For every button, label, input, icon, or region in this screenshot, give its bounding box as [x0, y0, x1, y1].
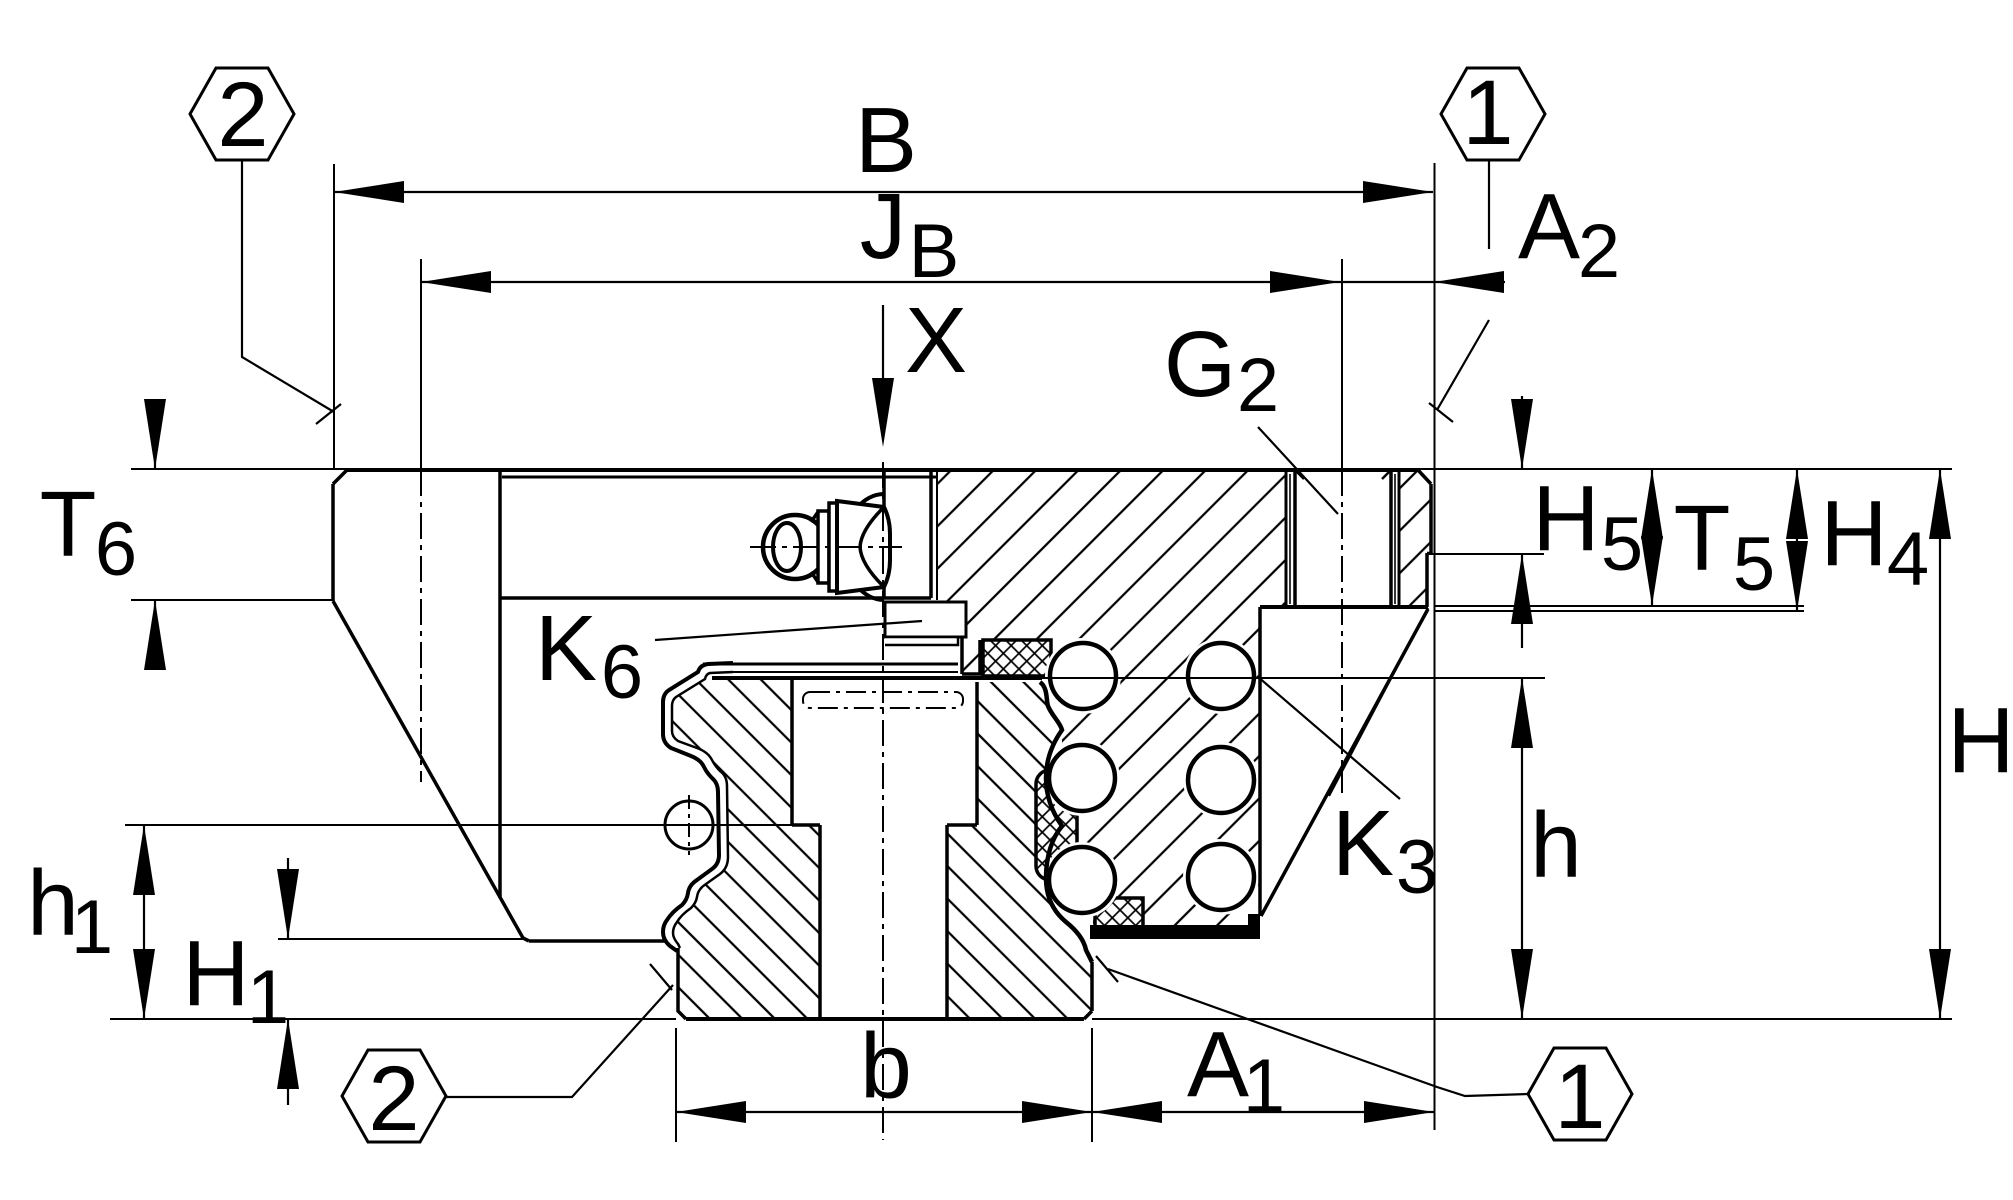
rail left flank inner contour (wavy): [672, 672, 733, 948]
G2 hole bottom: [1286, 605, 1399, 609]
end plate wall at nipple: [882, 472, 886, 598]
svg-text:b: b: [860, 1014, 912, 1118]
grease nipple ball cap: [763, 515, 827, 579]
svg-text:1: 1: [1243, 1044, 1285, 1129]
ball 1: [1050, 643, 1116, 709]
svg-text:1: 1: [71, 885, 113, 970]
ball clearance ring 4: [1183, 638, 1259, 714]
H4 reference line: [1434, 610, 1804, 612]
svg-text:B: B: [909, 209, 960, 294]
hexagon marker 2 top: [190, 64, 294, 166]
centerline X vertical: [882, 462, 884, 1140]
rail side hole circle: [665, 801, 713, 849]
label A2: [1518, 174, 1620, 294]
H1 top reference line: [278, 938, 523, 940]
leader hexagon 1 bottom: [1096, 956, 1528, 1096]
svg-text:1: 1: [1554, 1046, 1605, 1148]
lube plate K6 block: [885, 602, 966, 637]
centerline grease nipple: [750, 546, 902, 548]
centerline bolt hole left: [420, 470, 422, 782]
leader hexagon 2 top: [242, 160, 341, 424]
carriage inner wall left: [498, 472, 502, 898]
lube plate lower: [885, 637, 958, 645]
carriage bottom edge left: [523, 938, 666, 941]
carriage body section left (hatched): [885, 470, 1286, 928]
svg-text:A: A: [1518, 174, 1580, 278]
svg-text:5: 5: [1601, 502, 1643, 587]
label B: [855, 88, 917, 192]
dimension H: [1929, 469, 1951, 1019]
carriage body wall lines: [931, 472, 937, 600]
rail bottom edge: [678, 948, 1092, 1019]
dimension JB and A2 line: [421, 271, 1505, 293]
dimension H5: [1511, 396, 1533, 648]
svg-text:A: A: [1187, 1012, 1249, 1116]
dimension A1: [1092, 1101, 1434, 1123]
svg-text:K: K: [1332, 791, 1394, 895]
lower seal patch (cross-hatched): [1095, 898, 1143, 928]
rail right flank raceway outline: [1040, 682, 1092, 962]
ball 6: [1188, 844, 1254, 910]
carriage right bevel: [1261, 609, 1428, 916]
dimension h1: [133, 825, 155, 1019]
svg-text:T: T: [1674, 486, 1731, 590]
ball clearance ring 1: [1045, 638, 1121, 714]
label T6: [40, 472, 138, 592]
ball clearance ring 6: [1183, 839, 1259, 915]
rail top surface: [703, 664, 1042, 678]
carriage top surface: [347, 468, 1418, 472]
svg-text:1: 1: [1462, 62, 1513, 164]
carriage right edge: [1427, 484, 1431, 607]
svg-text:2: 2: [1578, 209, 1620, 294]
label H4: [1820, 481, 1929, 602]
X section arrow: [872, 305, 894, 447]
svg-text:2: 2: [1237, 343, 1279, 428]
dimension B line: [334, 181, 1433, 203]
dimension T5: [1641, 469, 1663, 606]
B extension line left: [333, 164, 335, 469]
leader G2: [1258, 427, 1338, 514]
label T5: [1674, 486, 1776, 607]
svg-text:X: X: [905, 288, 967, 392]
leader hexagon 1 top: [1429, 160, 1489, 422]
carriage top-right chamfer: [1418, 470, 1431, 484]
carriage left bevel: [333, 601, 523, 938]
G2 threaded hole right wall: [1382, 470, 1399, 607]
rail section right of bolt hole (hatched): [947, 682, 1092, 1019]
G2 extension line: [1341, 259, 1343, 470]
svg-text:5: 5: [1733, 522, 1775, 607]
upper seal insert (cross-hatched): [983, 640, 1051, 676]
ball center reference line (h top): [995, 677, 1545, 679]
ball 5: [1188, 747, 1254, 813]
dimension T6: [144, 399, 166, 670]
ball 4: [1188, 643, 1254, 709]
svg-text:H: H: [1947, 688, 2013, 792]
svg-text:H: H: [1820, 481, 1887, 585]
svg-text:2: 2: [368, 1048, 419, 1150]
label H5: [1532, 466, 1643, 587]
label X: [905, 288, 967, 392]
svg-text:1: 1: [247, 955, 289, 1040]
hexagon marker 1 top: [1441, 62, 1545, 164]
baseline reference line: [110, 1018, 1952, 1020]
carriage inner wall right: [1258, 607, 1262, 916]
hexagon marker 1 bottom: [1528, 1046, 1632, 1148]
leader K3 a: [1257, 676, 1400, 799]
dimension H1: [277, 858, 299, 1105]
ball 2: [1049, 745, 1115, 811]
grease nipple neck: [811, 503, 837, 591]
carriage end plate ceiling: [502, 476, 936, 479]
svg-text:2: 2: [217, 64, 268, 166]
rail left flank outer contour (wavy): [663, 663, 733, 951]
svg-text:H: H: [1532, 466, 1599, 570]
grease nipple boss socket: [844, 494, 884, 600]
T6 bottom reference line: [131, 599, 333, 601]
carriage left edge: [331, 484, 335, 601]
ball clearance ring 5: [1183, 742, 1259, 818]
bottom seal strip (solid black): [1090, 914, 1260, 939]
rail bolt hole walls: [820, 825, 947, 1019]
rail bolt counterbore walls: [792, 680, 977, 825]
svg-text:H: H: [182, 921, 249, 1025]
centerline rail side hole: [688, 795, 690, 855]
svg-text:J: J: [860, 174, 907, 278]
b extension line right: [1091, 1028, 1093, 1142]
ball clearance ring 3: [1044, 842, 1120, 918]
extension line 1 right: [1434, 163, 1436, 1130]
label K3: [1332, 791, 1438, 910]
svg-text:6: 6: [601, 630, 643, 715]
G2 threaded hole left wall: [1286, 470, 1304, 607]
ball clearance ring 2: [1044, 740, 1120, 816]
carriage body section right of G2 hole (hatched): [1399, 470, 1431, 607]
label H: [1947, 688, 2013, 792]
ball 3: [1049, 847, 1115, 913]
svg-text:3: 3: [1396, 825, 1438, 910]
rail section left of bolt hole (hatched): [672, 678, 820, 1019]
hexagon marker 2 bottom: [342, 1048, 446, 1150]
centerline G2 hole: [1341, 470, 1343, 793]
T5 reference line: [1434, 605, 1804, 607]
svg-text:T: T: [40, 472, 97, 576]
H5 step reference line: [1427, 553, 1544, 555]
label G2: [1164, 312, 1279, 428]
label JB: [860, 174, 960, 294]
b extension line left: [675, 1028, 677, 1142]
dimension b: [676, 1101, 1092, 1123]
leader K6: [655, 621, 922, 640]
leader K3 b: [1329, 608, 1428, 796]
label A1: [1187, 1012, 1285, 1129]
carriage pocket floor: [500, 596, 931, 600]
label H1: [182, 921, 289, 1040]
grease nipple hex nut: [837, 501, 890, 593]
dimension h: [1511, 678, 1533, 1019]
carriage step surface right: [1260, 605, 1428, 609]
lube channel: [962, 637, 983, 674]
hidden bolt head outline: [803, 692, 963, 708]
svg-text:K: K: [535, 596, 597, 700]
top surface reference line: [131, 468, 1952, 470]
label K6: [535, 596, 643, 715]
label h1: [27, 851, 113, 970]
h1 top reference line: [125, 824, 820, 826]
middle seal strip between balls (cross-hatched): [1036, 770, 1077, 880]
leader hexagon 2 bottom: [443, 964, 673, 1097]
svg-text:G: G: [1164, 312, 1236, 416]
label b: [860, 1014, 912, 1118]
svg-text:h: h: [1530, 793, 1582, 897]
label h: [1530, 793, 1582, 897]
JB extension line left: [420, 259, 422, 469]
svg-text:6: 6: [95, 507, 137, 592]
dimension H4: [1786, 469, 1808, 611]
carriage top-left chamfer: [333, 470, 347, 484]
svg-text:4: 4: [1887, 517, 1929, 602]
